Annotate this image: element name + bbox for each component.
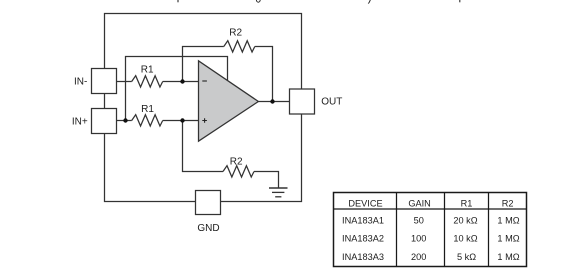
svg-text:R2: R2 (502, 199, 514, 209)
svg-text:1 MΩ: 1 MΩ (497, 252, 519, 262)
svg-text:10 kΩ: 10 kΩ (453, 234, 477, 244)
svg-text:INA183A2: INA183A2 (342, 234, 384, 244)
svg-text:R1: R1 (141, 104, 154, 115)
svg-text:1 MΩ: 1 MΩ (497, 216, 519, 226)
svg-text:5 kΩ: 5 kΩ (457, 252, 476, 262)
svg-text:50: 50 (414, 216, 424, 226)
svg-text:INA183A1: INA183A1 (342, 216, 384, 226)
svg-text:OUT: OUT (321, 97, 342, 108)
svg-text:200: 200 (411, 252, 426, 262)
svg-text:GAIN: GAIN (408, 199, 430, 209)
svg-text:IN+: IN+ (72, 117, 88, 128)
svg-text:R2: R2 (229, 27, 242, 38)
svg-text:DEVICE: DEVICE (348, 199, 382, 209)
svg-text:20 kΩ: 20 kΩ (453, 216, 477, 226)
svg-text:GND: GND (197, 223, 219, 234)
svg-text:100: 100 (411, 234, 426, 244)
svg-text:1 MΩ: 1 MΩ (497, 234, 519, 244)
svg-text:R1: R1 (141, 65, 154, 76)
svg-text:IN-: IN- (74, 76, 87, 87)
svg-text:INA183A3: INA183A3 (342, 252, 384, 262)
svg-text:R1: R1 (461, 199, 473, 209)
svg-text:R2: R2 (230, 156, 243, 167)
